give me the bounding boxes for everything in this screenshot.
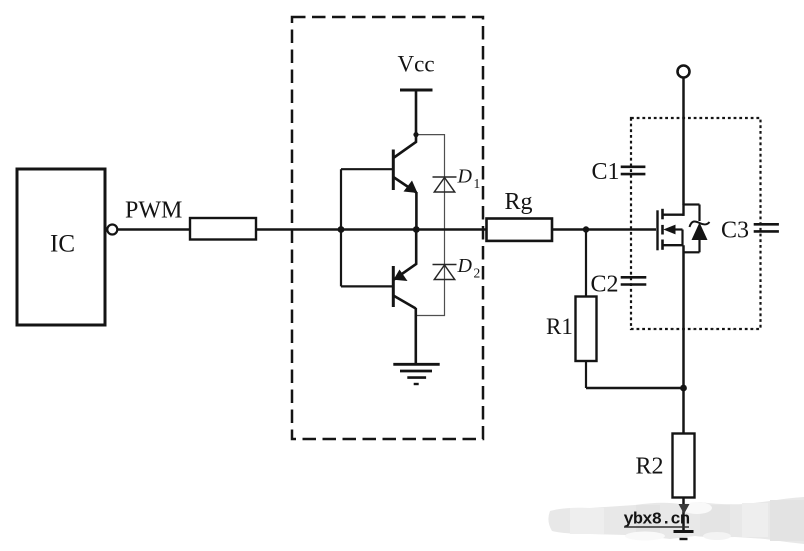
svg-text:2: 2	[474, 266, 481, 281]
svg-text:D: D	[457, 166, 473, 188]
svg-text:D: D	[457, 255, 473, 277]
svg-text:C1: C1	[592, 159, 620, 185]
svg-text:1: 1	[474, 176, 481, 191]
svg-text:R2: R2	[636, 454, 664, 480]
svg-text:C2: C2	[591, 272, 619, 298]
svg-text:Vcc: Vcc	[398, 52, 435, 77]
svg-text:C3: C3	[721, 218, 749, 244]
svg-text:R1: R1	[546, 314, 573, 339]
svg-text:IC: IC	[50, 231, 75, 258]
svg-text:Rg: Rg	[505, 189, 533, 215]
svg-text:PWM: PWM	[125, 198, 182, 224]
